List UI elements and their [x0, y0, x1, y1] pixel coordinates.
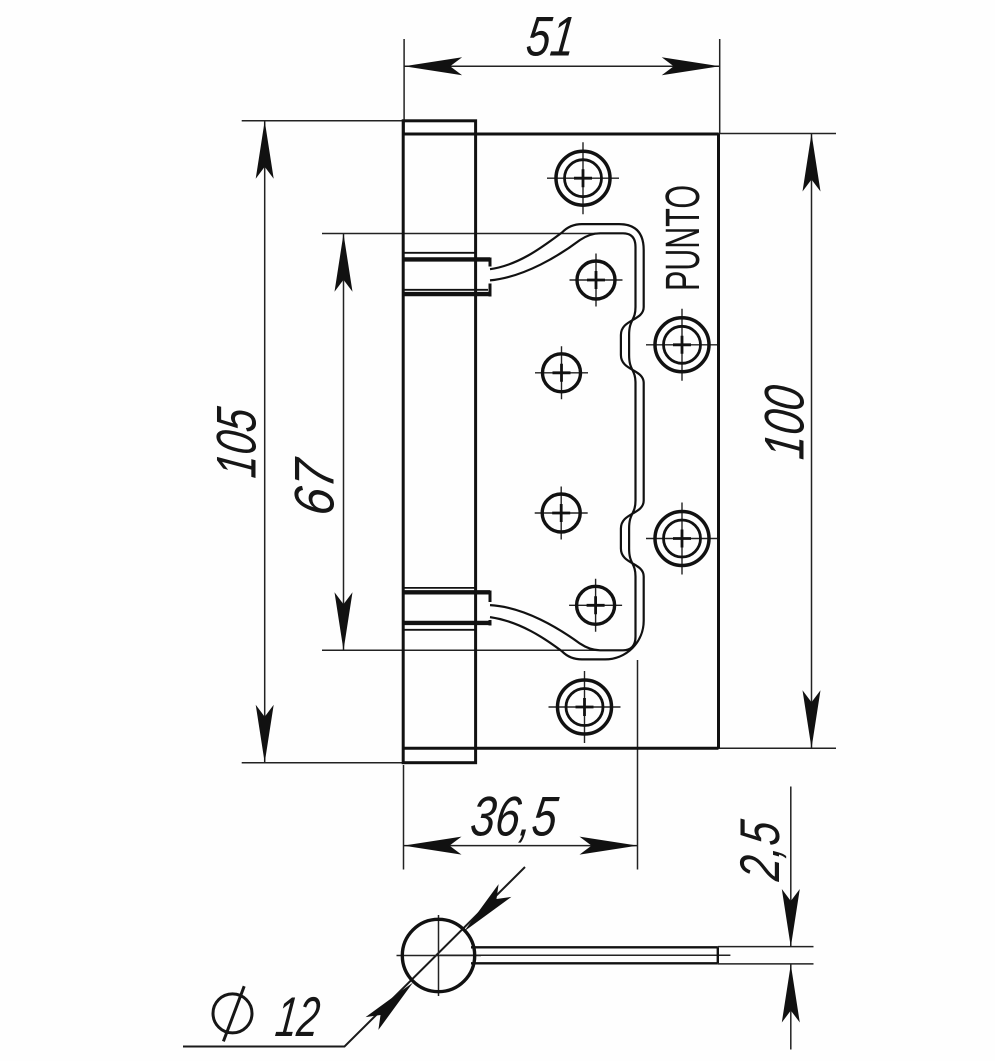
countersunk hole bottom outer circle — [558, 680, 612, 734]
dim 67 top arrowhead — [335, 234, 353, 292]
lower knuckle joint thin line below — [403, 629, 475, 631]
dim 36,5 dimension line — [404, 845, 638, 847]
hinge barrel (knuckle bar) outline — [403, 121, 475, 763]
dim 2,5 dimension line lower part — [790, 965, 792, 1050]
screw hole mid-lower center cross — [552, 504, 570, 522]
screw hole upper-left center cross — [587, 271, 605, 289]
lower knuckle joint top thick line — [403, 590, 490, 594]
screw hole lower-left center cross — [587, 596, 605, 614]
dim 100 top arrowhead — [803, 134, 821, 192]
dim 100 bottom extension line — [719, 747, 837, 749]
dim 67 dimension line — [343, 234, 345, 651]
screw hole mid-lower crosshair — [535, 487, 588, 540]
dim 67 bottom extension line — [322, 649, 600, 651]
dim 105 top arrowhead — [256, 121, 274, 179]
upper knuckle joint thin line inside — [403, 289, 488, 291]
svg-text:105: 105 — [204, 404, 267, 481]
dim 100 bottom arrowhead — [803, 690, 821, 748]
dim text 51 — [523, 5, 579, 68]
plate side view bottom edge — [471, 962, 718, 964]
dia 12 upper-right arrowhead — [464, 884, 511, 931]
dim 105 bottom extension line — [242, 762, 404, 764]
dim 2,5 lower arrowhead — [782, 965, 800, 1023]
countersunk hole right-lower outer circle — [655, 512, 709, 566]
countersunk hole bottom center cross — [576, 698, 594, 716]
dim 67 bottom arrowhead — [335, 592, 353, 650]
dim 51 left arrowhead — [404, 57, 462, 75]
dim 2,5 dimension line upper part — [790, 787, 792, 948]
svg-text:51: 51 — [523, 5, 579, 68]
lower knuckle joint bottom thick line — [403, 621, 490, 625]
dim text 105 — [204, 404, 267, 481]
dia 12 leader shelf and diagonal — [183, 867, 525, 1047]
screw hole lower-left circle — [577, 586, 615, 624]
dim 2,5 bottom extension line — [718, 963, 814, 965]
countersunk hole top crosshair — [547, 142, 619, 214]
dim 105 bottom arrowhead — [256, 705, 274, 763]
dim 2,5 top extension line — [718, 946, 814, 948]
countersunk hole right-upper inner circle — [664, 326, 701, 363]
dim 36,5 left arrowhead — [404, 837, 462, 855]
side view center line — [440, 954, 730, 956]
screw hole upper-left crosshair — [570, 254, 623, 307]
barrel circle crosshair vertical — [438, 915, 440, 996]
lower knuckle joint thin line above — [403, 587, 475, 589]
dim 51 right arrowhead — [662, 57, 720, 75]
svg-text:12: 12 — [273, 985, 324, 1048]
barrel circle crosshair horizontal — [397, 955, 482, 957]
countersunk hole right-lower crosshair — [646, 503, 718, 575]
screw hole upper-left circle — [577, 261, 615, 299]
upper knuckle joint top thick line — [403, 257, 490, 261]
svg-text:PUNTO: PUNTO — [657, 185, 710, 291]
screw hole mid-upper crosshair — [535, 346, 588, 399]
svg-text:36,5: 36,5 — [468, 785, 562, 848]
dim 36,5 left extension line — [403, 765, 405, 870]
svg-text:2,5: 2,5 — [728, 817, 791, 885]
countersunk hole bottom crosshair — [549, 671, 621, 743]
countersunk hole top outer circle — [556, 151, 610, 205]
screw hole mid-upper center cross — [553, 364, 571, 382]
countersunk hole right-lower center cross — [673, 530, 691, 548]
plate bottom edge — [403, 747, 718, 750]
dim 105 top extension line — [242, 120, 404, 122]
svg-text:100: 100 — [752, 382, 815, 462]
folded leaf contour inner (sheet thickness) line — [490, 233, 636, 650]
dim 36,5 right extension line — [637, 660, 639, 870]
countersunk hole top center cross — [574, 169, 592, 187]
dim text 100 — [752, 382, 815, 462]
dim 51 dimension line — [404, 65, 720, 67]
brand text PUNTO — [657, 185, 710, 291]
svg-text:67: 67 — [282, 455, 345, 519]
dim text 67 — [282, 455, 345, 519]
dim text 36,5 — [468, 785, 562, 848]
countersunk hole right-upper outer circle — [655, 318, 709, 372]
screw hole mid-lower circle — [542, 494, 580, 532]
countersunk hole bottom inner circle — [566, 689, 603, 726]
dim 36,5 right arrowhead — [580, 837, 638, 855]
dim text 2,5 — [728, 817, 791, 885]
screw hole mid-upper circle — [543, 354, 581, 392]
dim 100 dimension line — [811, 134, 813, 749]
dim 2,5 upper arrowhead — [782, 889, 800, 947]
barrel circle (bottom view) — [402, 919, 474, 991]
dim 105 dimension line — [264, 121, 266, 763]
plate side view top edge — [471, 946, 718, 948]
screw hole lower-left crosshair — [569, 579, 622, 632]
lower tab right edge segments — [489, 591, 492, 626]
upper knuckle joint thin line above — [403, 252, 475, 254]
upper knuckle joint bottom thick line — [403, 292, 490, 296]
folded leaf contour outer line — [490, 224, 644, 659]
dim text 12 — [273, 985, 324, 1048]
plate top edge — [403, 133, 718, 136]
plate right edge — [717, 134, 720, 748]
countersunk hole right-upper crosshair — [646, 309, 718, 381]
plate side view end edge — [717, 947, 719, 963]
dim 51 left extension line — [403, 39, 405, 134]
dia 12 lower-left arrowhead — [366, 983, 413, 1030]
dia symbol — [213, 994, 252, 1033]
countersunk hole top inner circle — [565, 160, 602, 197]
dim 67 top extension line — [322, 233, 600, 235]
dim 51 right extension line — [719, 39, 721, 134]
countersunk hole right-upper center cross — [673, 336, 691, 354]
countersunk hole right-lower inner circle — [664, 520, 701, 557]
dim 100 top extension line — [719, 133, 837, 135]
upper tab right edge segments — [489, 258, 492, 297]
